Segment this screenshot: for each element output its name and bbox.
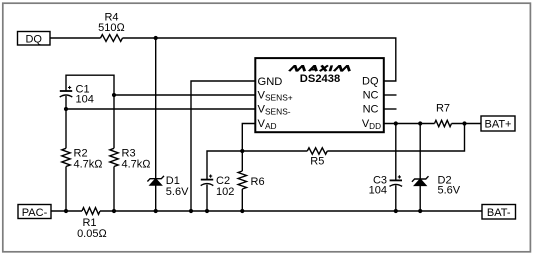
capacitor C2: [201, 179, 213, 181]
resistor R7: [435, 120, 452, 126]
wire DQ top rail left: [50, 37, 101, 39]
zener diode D1: [147, 176, 164, 182]
wire C1 top loop: [66, 75, 114, 148]
node VAD / R6 / R5: [240, 149, 244, 153]
svg-text:NC: NC: [363, 90, 379, 102]
svg-text:R5: R5: [310, 156, 324, 168]
wire VAD elbow: [242, 124, 255, 152]
zener diode D2: [412, 176, 429, 182]
wire top rail to DQ pin: [123, 38, 396, 81]
node VDD / R5 branch: [462, 121, 466, 125]
svg-text:BAT+: BAT+: [484, 119, 511, 131]
wire R3 to bottom rail: [113, 167, 115, 212]
wire R6 to bottom rail: [241, 189, 243, 211]
wire VSENS- row: [66, 108, 255, 110]
svg-text:R6: R6: [251, 176, 265, 188]
node bottom / GND: [189, 209, 193, 213]
node bottom / D2: [418, 209, 422, 213]
wire R2 to bottom rail: [65, 167, 67, 212]
terminal BAT-: [482, 205, 516, 220]
node VSENS+ / R3: [112, 93, 116, 97]
node VDD / D2: [418, 121, 422, 125]
svg-text:104: 104: [76, 93, 94, 105]
svg-text:R7: R7: [436, 103, 450, 115]
wire VDD rail: [384, 123, 435, 125]
svg-text:5.6V: 5.6V: [438, 185, 461, 197]
svg-text:4.7kΩ: 4.7kΩ: [74, 158, 104, 170]
node VDD / C3: [394, 121, 398, 125]
terminal DQ: [18, 32, 51, 46]
node bottom / C2: [205, 209, 209, 213]
wire VDD down to R5 row: [327, 124, 464, 152]
resistor R4: [101, 35, 123, 42]
svg-text:0.05Ω: 0.05Ω: [77, 228, 107, 240]
svg-text:DQ: DQ: [362, 76, 379, 88]
wire bottom rail right: [100, 210, 482, 212]
node junction dots: [64, 36, 467, 213]
svg-text:DQ: DQ: [25, 34, 42, 46]
node bottom / R3: [112, 209, 116, 213]
node bottom / R2: [64, 209, 68, 213]
svg-text:NC: NC: [363, 104, 379, 116]
terminal BAT+: [481, 116, 515, 131]
wire NC stub 1: [384, 94, 397, 96]
node bottom / C3: [394, 209, 398, 213]
wire GND pin down: [191, 81, 255, 211]
capacitor C3: [390, 179, 402, 181]
svg-text:510Ω: 510Ω: [98, 22, 125, 34]
resistor R6: [238, 171, 246, 189]
node VSENS- / C1: [64, 107, 68, 111]
wire VAD node to R6: [241, 151, 243, 171]
node top rail / D1: [154, 36, 158, 40]
terminal PAC-: [18, 205, 51, 219]
IC U1 DS2438 box: [255, 58, 383, 132]
node bottom / D1: [154, 209, 158, 213]
capacitor C1: [60, 90, 72, 92]
wire R5 row left to C2: [207, 151, 307, 180]
wire NC stub 2: [384, 108, 397, 110]
resistor R1: [82, 208, 100, 215]
resistor R5: [307, 148, 327, 154]
wire R7 to BAT+: [452, 123, 482, 125]
wire D2 column: [419, 124, 421, 212]
svg-text:DS2438: DS2438: [300, 73, 340, 85]
MAXIM logo: [289, 65, 351, 71]
svg-text:GND: GND: [258, 76, 283, 88]
wire VSENS+ row: [114, 94, 255, 96]
resistor R3: [110, 148, 118, 166]
node bottom / R6: [240, 209, 244, 213]
wire C3 column: [395, 124, 397, 212]
svg-text:102: 102: [216, 186, 234, 198]
wire bottom rail left: [51, 210, 82, 212]
svg-text:104: 104: [369, 185, 387, 197]
resistor R2: [62, 148, 70, 166]
svg-text:5.6V: 5.6V: [166, 186, 189, 198]
svg-text:4.7kΩ: 4.7kΩ: [122, 158, 152, 170]
wire D1 column: [155, 38, 157, 211]
svg-text:PAC-: PAC-: [22, 207, 48, 219]
svg-text:BAT-: BAT-: [487, 207, 511, 219]
